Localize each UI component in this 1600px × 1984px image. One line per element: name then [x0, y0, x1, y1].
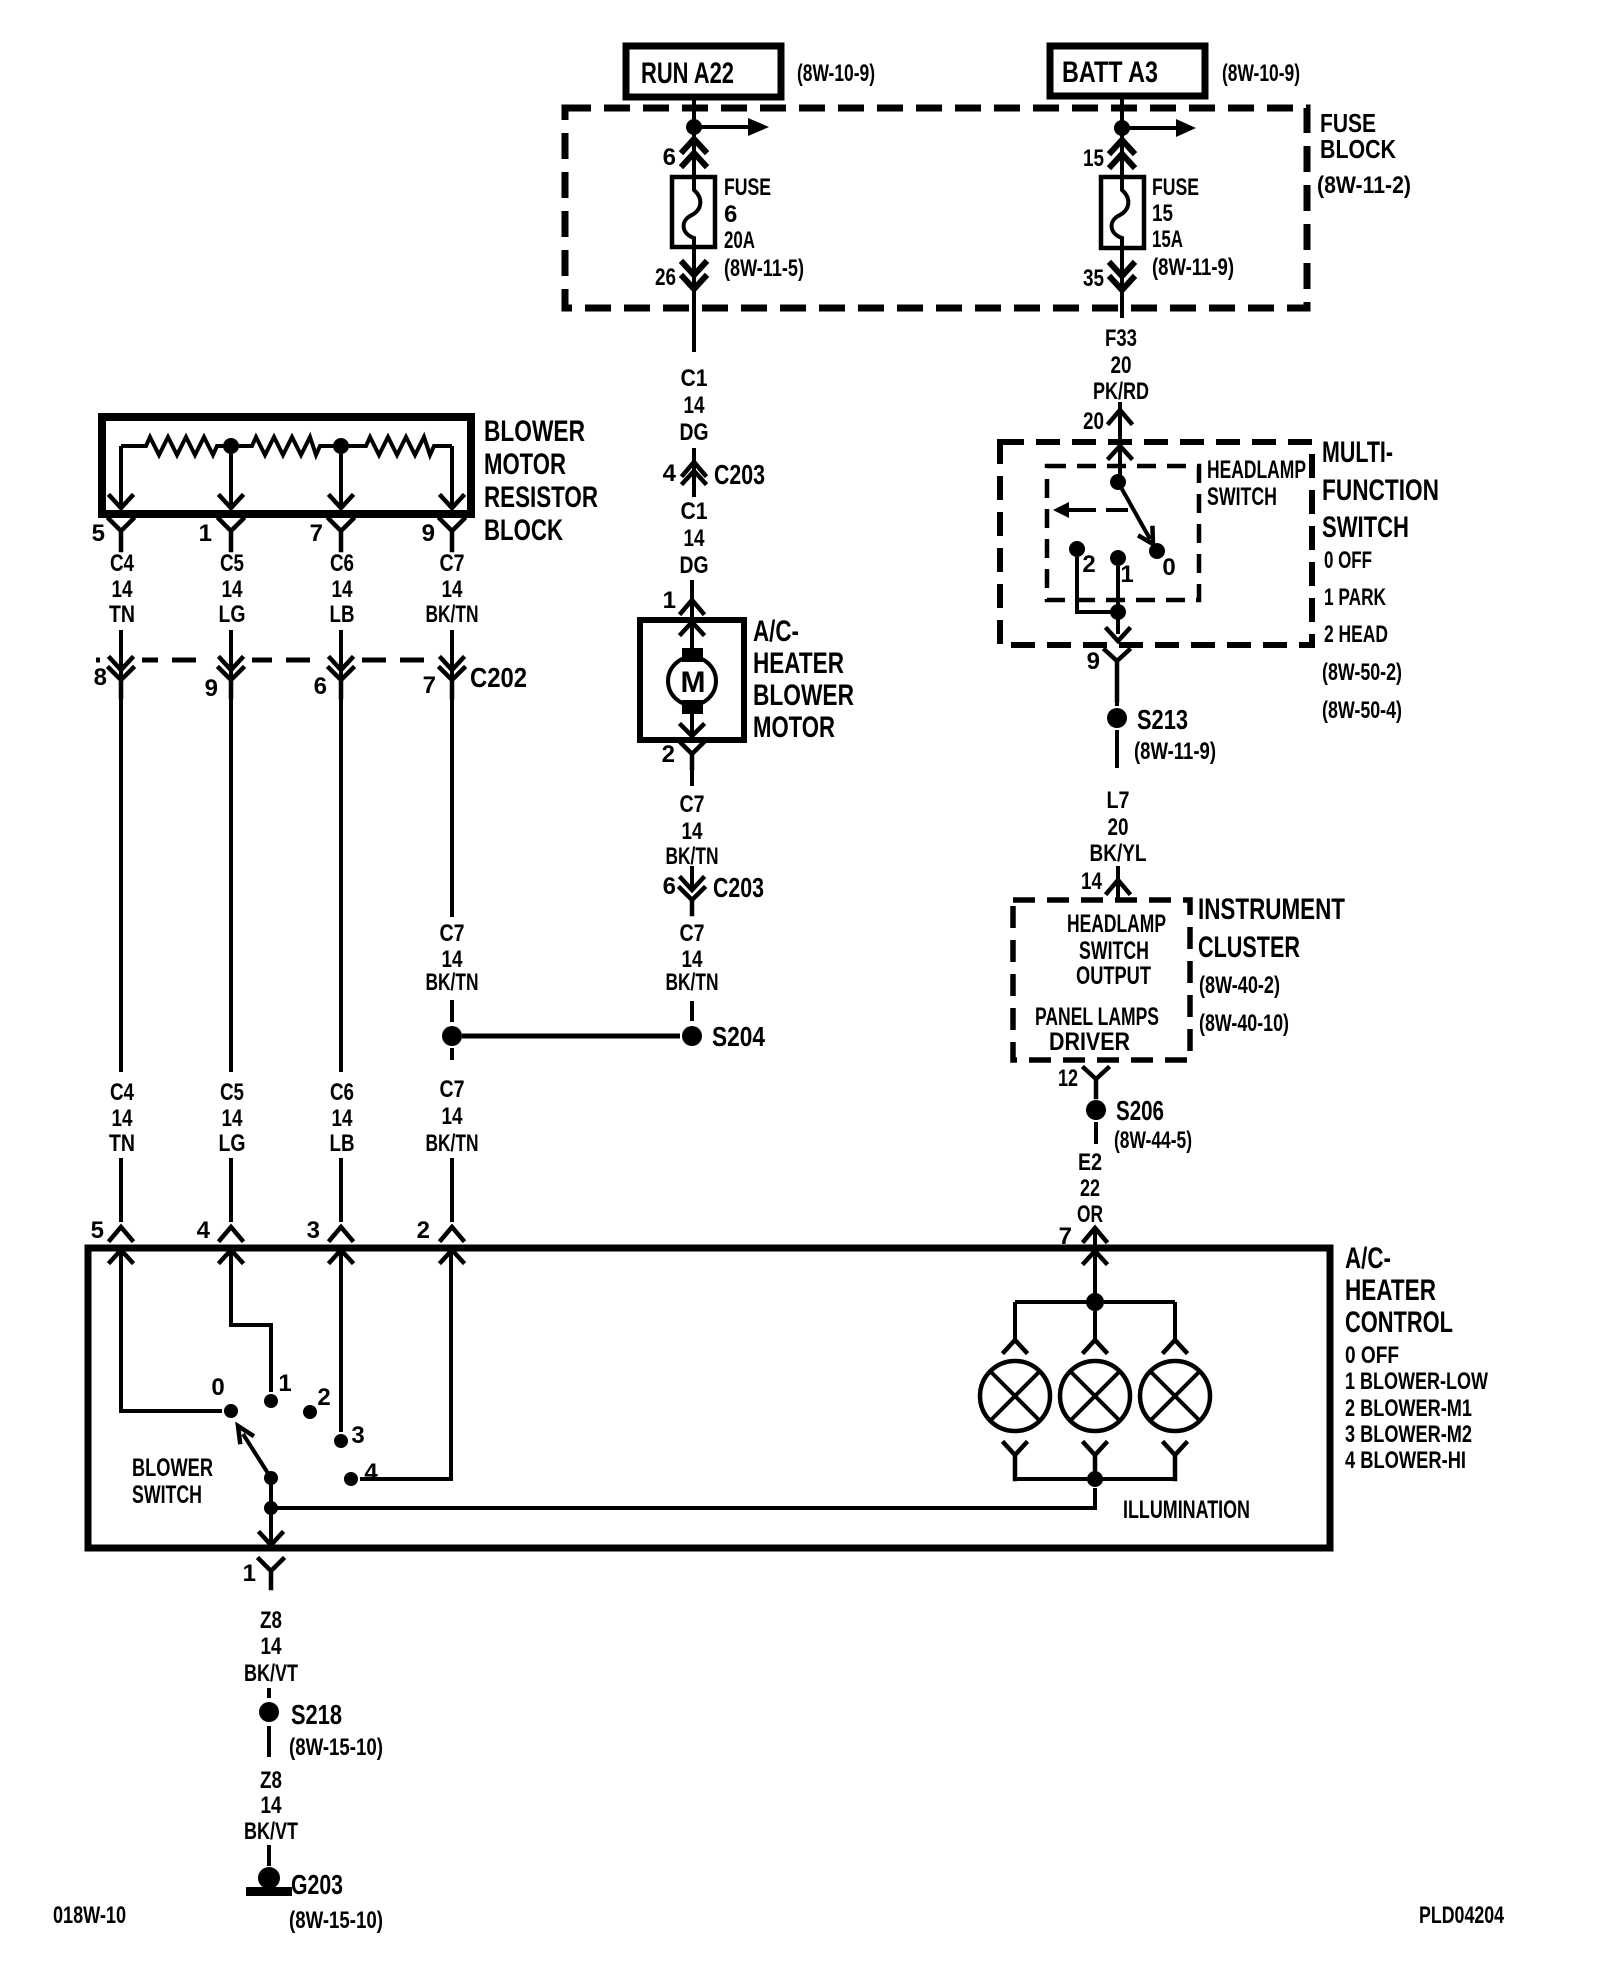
svg-text:(8W-50-2): (8W-50-2)	[1322, 659, 1402, 686]
feed arrow right (BATT)	[1122, 119, 1196, 137]
connector C202 pin 8	[94, 652, 142, 697]
node wiper pivot (blower switch)	[264, 1471, 278, 1485]
connector pin 7 (resistor block)	[310, 519, 353, 550]
svg-text:8: 8	[94, 664, 107, 691]
svg-text:Z8: Z8	[260, 1607, 282, 1634]
wire pin 4 to position 1	[231, 1250, 271, 1392]
svg-text:C7: C7	[440, 920, 465, 947]
node position 4 (blower switch)	[344, 1459, 378, 1486]
resistor R3	[341, 437, 452, 455]
motor M1 internals	[668, 624, 716, 736]
wire label C7 14 BK/TN (lower)	[426, 1076, 479, 1157]
wire common junction to illumination rail	[271, 1488, 1095, 1508]
blower motor resistor block (box)	[102, 417, 471, 514]
svg-text:PK/RD: PK/RD	[1093, 378, 1149, 405]
svg-text:6: 6	[663, 144, 676, 171]
svg-text:HEATER: HEATER	[1345, 1274, 1436, 1307]
svg-text:4: 4	[663, 460, 677, 487]
svg-text:14: 14	[442, 576, 464, 603]
headlamp switch wiper arm	[1118, 482, 1153, 544]
svg-text:S213: S213	[1137, 704, 1188, 735]
svg-text:6: 6	[724, 201, 737, 228]
svg-text:6: 6	[314, 673, 327, 700]
svg-text:MOTOR: MOTOR	[484, 448, 566, 481]
svg-text:(8W-11-9): (8W-11-9)	[1152, 254, 1234, 281]
multi-function switch (outer dashed box)	[1000, 442, 1312, 645]
svg-text:C5: C5	[220, 1079, 244, 1106]
wire chevron to fuse 6	[692, 131, 696, 177]
svg-text:BK/TN: BK/TN	[666, 969, 719, 996]
svg-text:14: 14	[442, 1103, 464, 1130]
svg-text:LB: LB	[330, 1130, 355, 1157]
connector pin 1 (a/c-heater control, bottom)	[243, 1559, 283, 1588]
svg-text:7: 7	[423, 672, 436, 699]
lamps top rail	[1015, 1300, 1175, 1304]
node S204 left junction	[442, 1026, 462, 1046]
wire S218 down	[267, 1726, 271, 1757]
wire fuse 6 exit through fuse block border	[692, 247, 696, 352]
wire pin 7 into lamps junction	[1093, 1228, 1097, 1294]
svg-text:INSTRUMENT: INSTRUMENT	[1198, 893, 1345, 926]
node lamps feed junction	[1086, 1293, 1104, 1311]
svg-text:MOTOR: MOTOR	[753, 711, 835, 744]
connector pin 5 (resistor block)	[92, 519, 133, 550]
wire label C6 14 LB	[330, 550, 355, 628]
wire pin 2 to position 4	[360, 1250, 451, 1479]
svg-text:4 BLOWER-HI: 4 BLOWER-HI	[1345, 1447, 1466, 1474]
svg-text:MULTI-: MULTI-	[1322, 436, 1393, 469]
svg-text:4: 4	[197, 1217, 211, 1244]
wire resistor drops with arrows	[110, 446, 463, 508]
node BATT A3	[1050, 46, 1205, 96]
svg-text:20: 20	[1108, 814, 1129, 841]
connector pin 2 (blower motor)	[662, 741, 704, 768]
node common junction (blower switch)	[264, 1501, 278, 1515]
svg-text:RUN A22: RUN A22	[641, 57, 734, 90]
svg-text:C7: C7	[440, 1076, 465, 1103]
svg-text:DRIVER: DRIVER	[1049, 1028, 1130, 1056]
svg-text:(8W-10-9): (8W-10-9)	[1222, 60, 1300, 87]
svg-text:018W-10: 018W-10	[53, 1902, 126, 1929]
wire S206 down	[1094, 1122, 1098, 1144]
svg-text:14: 14	[684, 525, 706, 552]
svg-text:3 BLOWER-M2: 3 BLOWER-M2	[1345, 1421, 1472, 1448]
connector C202 dashed gang line	[96, 658, 462, 663]
node RUN A22	[626, 46, 781, 97]
node position 1 (blower switch)	[264, 1370, 292, 1408]
connector C203 pin 6	[663, 866, 764, 914]
svg-text:DG: DG	[680, 419, 709, 446]
blower switch wiper arm	[238, 1426, 271, 1478]
svg-text:A/C-: A/C-	[753, 615, 799, 648]
svg-text:15: 15	[1152, 200, 1173, 227]
wire label C7 14 BK/TN	[426, 550, 479, 628]
connector pin 5 (a/c-heater control)	[91, 1217, 132, 1262]
svg-text:A/C-: A/C-	[1345, 1242, 1391, 1275]
node output junction (headlamp switch)	[1110, 604, 1126, 620]
svg-text:2 HEAD: 2 HEAD	[1324, 621, 1388, 648]
connector C203 pin 4	[663, 448, 765, 497]
node position 1 (headlamp switch)	[1110, 550, 1134, 588]
svg-text:1: 1	[199, 520, 212, 547]
svg-text:14: 14	[332, 1105, 354, 1132]
wire pin2 to label	[690, 768, 694, 786]
svg-text:BK/YL: BK/YL	[1090, 840, 1147, 867]
wire C5 long run	[229, 697, 233, 1072]
feed arrow right (RUN)	[694, 118, 769, 136]
a/c-heater blower motor label	[753, 615, 854, 744]
node junction at RUN feed	[686, 119, 702, 135]
fuse 6 (FUSE 6 20A)	[672, 174, 804, 282]
svg-text:M: M	[681, 666, 706, 699]
wire position 1 to output	[1116, 566, 1120, 634]
svg-text:LG: LG	[219, 1130, 246, 1157]
connector pin 2 (a/c-heater control)	[417, 1217, 463, 1262]
wire label L7 20 BK/YL	[1090, 787, 1147, 867]
svg-text:6: 6	[663, 873, 676, 900]
svg-text:5: 5	[92, 520, 105, 547]
svg-text:9: 9	[1087, 648, 1100, 675]
svg-text:SWITCH: SWITCH	[1207, 483, 1277, 511]
lamp L3 terminals and bulb	[1140, 1302, 1210, 1479]
wire label C1 14 DG (upper)	[680, 365, 709, 446]
svg-text:C203: C203	[714, 459, 765, 490]
wire S213 down	[1115, 730, 1119, 768]
lamps bottom rail	[1015, 1477, 1175, 1481]
connector pin 35 (fuse cavity, double chevron down)	[1083, 264, 1133, 292]
svg-text:G203: G203	[291, 1869, 343, 1900]
svg-text:S218: S218	[291, 1699, 342, 1730]
svg-text:L7: L7	[1107, 787, 1130, 814]
svg-text:(8W-44-5): (8W-44-5)	[1114, 1127, 1192, 1154]
wire C7 run to label	[450, 697, 454, 917]
svg-text:(8W-15-10): (8W-15-10)	[289, 1907, 383, 1934]
svg-text:ILLUMINATION: ILLUMINATION	[1123, 1496, 1250, 1524]
svg-text:5: 5	[91, 1217, 104, 1244]
svg-text:(8W-50-4): (8W-50-4)	[1322, 697, 1402, 724]
svg-text:HEATER: HEATER	[753, 647, 844, 680]
wire stubs between labels and C202	[121, 544, 452, 658]
wire label C5 14 LG (lower)	[219, 1079, 246, 1157]
svg-text:14: 14	[222, 576, 244, 603]
wire label C5 14 LG	[219, 550, 246, 628]
wire label C7 14 BK/TN (above S204)	[426, 920, 479, 996]
splice S204	[682, 1021, 765, 1052]
svg-text:C5: C5	[220, 550, 244, 577]
connector C202 pin 9	[205, 652, 252, 702]
svg-text:(8W-40-2): (8W-40-2)	[1199, 972, 1280, 999]
svg-text:PANEL LAMPS: PANEL LAMPS	[1035, 1003, 1159, 1031]
svg-text:LB: LB	[330, 601, 355, 628]
connector pin 7 (a/c-heater control)	[1059, 1223, 1106, 1263]
svg-text:BK/VT: BK/VT	[244, 1660, 298, 1687]
svg-text:0: 0	[211, 1374, 224, 1401]
resistor R2	[231, 437, 341, 455]
connector pin 1 (blower motor)	[663, 580, 703, 634]
svg-text:BLOCK: BLOCK	[1320, 134, 1396, 164]
wire into ground	[267, 1845, 271, 1866]
svg-text:0: 0	[1162, 554, 1175, 581]
headlamp switch (inner dashed box)	[1047, 466, 1199, 600]
blower switch label	[132, 1454, 213, 1509]
wire label F33 20 PK/RD	[1093, 325, 1149, 405]
wire C4 long run	[119, 697, 123, 1072]
svg-text:1 PARK: 1 PARK	[1324, 584, 1386, 611]
wire position 2 to output	[1077, 557, 1112, 612]
connector C202 pin 7	[423, 652, 473, 699]
svg-text:S206: S206	[1116, 1095, 1164, 1126]
a/c-heater blower motor (box)	[640, 620, 744, 740]
svg-text:0 OFF: 0 OFF	[1345, 1342, 1399, 1369]
headlamp switch output / panel lamps driver labels	[1035, 910, 1166, 1056]
wire S204 tie line	[462, 1034, 680, 1039]
svg-text:E2: E2	[1078, 1149, 1102, 1176]
wire label Z8 14 BK/VT (lower)	[244, 1767, 298, 1845]
svg-text:BK/TN: BK/TN	[426, 969, 479, 996]
connector pin 3 (a/c-heater control)	[307, 1217, 352, 1262]
wire common junction to pin 1 with arrow	[260, 1508, 282, 1545]
svg-text:BLOWER: BLOWER	[484, 415, 585, 448]
wire stub into S218	[267, 1688, 271, 1698]
node lamps return junction	[1087, 1471, 1103, 1487]
svg-text:20: 20	[1083, 408, 1104, 435]
svg-text:1: 1	[243, 1560, 256, 1587]
svg-text:C7: C7	[680, 920, 705, 947]
svg-text:9: 9	[205, 675, 218, 702]
svg-text:0 OFF: 0 OFF	[1324, 547, 1372, 574]
svg-text:15A: 15A	[1152, 226, 1183, 253]
svg-text:2 BLOWER-M1: 2 BLOWER-M1	[1345, 1395, 1472, 1422]
svg-text:FUNCTION: FUNCTION	[1322, 474, 1439, 507]
connector pin 9 (resistor block)	[422, 519, 464, 550]
connector pin 15 (fuse cavity, double chevron up)	[1083, 140, 1133, 172]
a/c-heater control label	[1345, 1242, 1488, 1474]
svg-text:2: 2	[662, 741, 675, 768]
node position 2 (headlamp switch)	[1069, 541, 1096, 578]
svg-text:BLOWER: BLOWER	[132, 1454, 213, 1482]
svg-text:9: 9	[422, 520, 435, 547]
svg-text:C6: C6	[330, 550, 354, 577]
svg-text:TN: TN	[109, 1130, 135, 1157]
svg-text:(8W-11-9): (8W-11-9)	[1134, 738, 1216, 765]
node wiper pivot (headlamp switch)	[1110, 474, 1126, 490]
svg-text:BK/TN: BK/TN	[426, 1130, 479, 1157]
svg-text:C202: C202	[470, 662, 527, 693]
connector pin 26 (fuse cavity, double chevron down)	[655, 263, 705, 291]
instrument cluster (dashed box)	[1013, 900, 1190, 1060]
resistor R1	[121, 437, 231, 455]
svg-text:(8W-10-9): (8W-10-9)	[797, 60, 875, 87]
svg-text:DG: DG	[680, 552, 709, 579]
svg-text:S204: S204	[712, 1021, 765, 1052]
svg-text:14: 14	[222, 1105, 244, 1132]
svg-text:14: 14	[112, 1105, 134, 1132]
wire label C7 14 BK/TN (above S204)	[666, 920, 719, 996]
blower motor resistor block label	[484, 415, 598, 547]
lamp L1 terminals and bulb	[980, 1302, 1050, 1479]
svg-text:SWITCH: SWITCH	[132, 1481, 202, 1509]
wire below left junction	[450, 1048, 454, 1060]
splice S213	[1107, 700, 1216, 765]
svg-text:7: 7	[310, 520, 323, 547]
connector pin 4 (a/c-heater control)	[197, 1217, 242, 1262]
svg-text:1: 1	[278, 1370, 291, 1397]
svg-text:CONTROL: CONTROL	[1345, 1306, 1453, 1339]
lamp L2 terminals and bulb	[1060, 1311, 1130, 1479]
wire label C4 14 TN (lower)	[109, 1079, 135, 1157]
svg-text:14: 14	[261, 1633, 283, 1660]
svg-text:C203: C203	[713, 872, 764, 903]
ground G203	[246, 1867, 383, 1934]
svg-text:OUTPUT: OUTPUT	[1076, 962, 1151, 990]
svg-text:14: 14	[684, 392, 706, 419]
svg-text:4: 4	[364, 1459, 378, 1486]
svg-text:FUSE: FUSE	[1152, 174, 1199, 201]
svg-text:SWITCH: SWITCH	[1322, 511, 1409, 544]
connector pin 12 (instrument cluster)	[1058, 1065, 1108, 1097]
wire C7 to junction	[450, 1000, 454, 1022]
wire label Z8 14 BK/VT (upper)	[244, 1607, 298, 1687]
svg-text:22: 22	[1080, 1175, 1100, 1202]
connector pin 1 (resistor block)	[199, 519, 243, 550]
wire pin 3 to position 3	[339, 1250, 343, 1432]
svg-text:Z8: Z8	[260, 1767, 282, 1794]
svg-text:26: 26	[655, 264, 676, 291]
wire output with arrow to pin 9	[1107, 629, 1129, 641]
svg-text:2: 2	[1082, 551, 1095, 578]
svg-text:14: 14	[261, 1792, 283, 1819]
connector pin 9 (multi-function switch)	[1087, 648, 1129, 700]
svg-text:1 BLOWER-LOW: 1 BLOWER-LOW	[1345, 1368, 1488, 1395]
wire label C1 14 DG (lower)	[680, 498, 709, 579]
svg-text:BK/VT: BK/VT	[244, 1818, 298, 1845]
splice S206	[1086, 1095, 1192, 1154]
node junction at BATT feed	[1114, 120, 1130, 136]
wire pin 5 to position 0	[121, 1250, 222, 1411]
wire label C7 14 BK/TN (below motor)	[666, 791, 719, 870]
svg-text:12: 12	[1058, 1065, 1078, 1092]
svg-text:C4: C4	[110, 550, 135, 577]
svg-text:C7: C7	[680, 791, 705, 818]
connector pin 20 (multi-function switch)	[1083, 402, 1131, 476]
svg-text:FUSE: FUSE	[724, 174, 771, 201]
a/c-heater control (box)	[88, 1248, 1330, 1548]
multi-function switch label	[1322, 436, 1439, 724]
wire into S204	[690, 1001, 694, 1021]
svg-text:1: 1	[1120, 561, 1133, 588]
svg-text:PLD04204: PLD04204	[1419, 1902, 1504, 1929]
svg-text:SWITCH: SWITCH	[1079, 937, 1149, 965]
fuse 15 (FUSE 15 15A)	[1101, 174, 1234, 281]
svg-text:2: 2	[417, 1217, 430, 1244]
connector pin 14 (instrument cluster)	[1081, 866, 1129, 898]
svg-text:3: 3	[307, 1217, 320, 1244]
svg-text:20A: 20A	[724, 227, 755, 254]
svg-text:(8W-11-5): (8W-11-5)	[724, 255, 804, 282]
svg-text:F33: F33	[1105, 325, 1137, 352]
fuse block (dashed box)	[565, 108, 1307, 308]
headlamp switch rotation arrow (dashed, pointing left)	[1053, 502, 1128, 518]
svg-text:BK/TN: BK/TN	[666, 843, 719, 870]
wire BATT A3 to junction	[1120, 96, 1124, 121]
connector C202 pin 6	[314, 652, 362, 700]
svg-text:(8W-11-2): (8W-11-2)	[1317, 172, 1411, 199]
node position 0 (headlamp switch)	[1149, 543, 1176, 581]
svg-text:14: 14	[1081, 868, 1103, 895]
headlamp switch label	[1207, 456, 1306, 511]
svg-text:C1: C1	[681, 365, 708, 392]
instrument cluster label	[1198, 893, 1345, 1037]
svg-text:C1: C1	[681, 498, 708, 525]
svg-text:(8W-15-10): (8W-15-10)	[289, 1734, 383, 1761]
svg-text:C7: C7	[440, 550, 465, 577]
svg-text:14: 14	[682, 818, 704, 845]
svg-text:BK/TN: BK/TN	[426, 601, 479, 628]
svg-text:15: 15	[1083, 145, 1104, 172]
node resistor tap 1	[223, 438, 239, 454]
wire pivot to common junction	[269, 1478, 273, 1508]
wire label C4 14 TN	[109, 550, 135, 628]
wire fuse 15 exit through fuse block border	[1120, 248, 1124, 318]
svg-text:C4: C4	[110, 1079, 135, 1106]
svg-text:LG: LG	[219, 601, 246, 628]
connector pin 6 (fuse cavity, double chevron up)	[663, 139, 705, 171]
node position 2 (blower switch)	[303, 1384, 331, 1419]
svg-text:BLOCK: BLOCK	[484, 514, 563, 547]
node resistor tap 2	[333, 438, 349, 454]
splice S218	[259, 1699, 383, 1761]
svg-text:RESISTOR: RESISTOR	[484, 481, 598, 514]
svg-text:HEADLAMP: HEADLAMP	[1207, 456, 1306, 484]
svg-text:2: 2	[317, 1384, 330, 1411]
svg-text:OR: OR	[1077, 1201, 1103, 1228]
fuse block label	[1317, 108, 1411, 199]
wire label C6 14 LB (lower)	[330, 1079, 355, 1157]
svg-text:35: 35	[1083, 265, 1104, 292]
svg-text:TN: TN	[109, 601, 135, 628]
wire chevron to fuse 15	[1120, 132, 1124, 177]
svg-text:BATT A3: BATT A3	[1062, 56, 1158, 89]
svg-text:1: 1	[663, 587, 676, 614]
wire RUN A22 to junction	[692, 97, 696, 120]
node position 0 (blower switch)	[211, 1374, 238, 1418]
svg-text:(8W-40-10): (8W-40-10)	[1199, 1010, 1289, 1037]
svg-text:14: 14	[112, 576, 134, 603]
svg-text:14: 14	[332, 576, 354, 603]
wire label E2 22 OR	[1077, 1149, 1103, 1228]
node position 3 (blower switch)	[334, 1422, 365, 1449]
svg-text:20: 20	[1111, 352, 1132, 379]
wire C6 long run	[339, 697, 343, 1072]
svg-text:3: 3	[351, 1422, 364, 1449]
svg-text:HEADLAMP: HEADLAMP	[1067, 910, 1166, 938]
svg-text:CLUSTER: CLUSTER	[1198, 931, 1300, 964]
svg-text:BLOWER: BLOWER	[753, 679, 854, 712]
svg-text:C6: C6	[330, 1079, 354, 1106]
wire runs into control box pins	[121, 1158, 452, 1222]
